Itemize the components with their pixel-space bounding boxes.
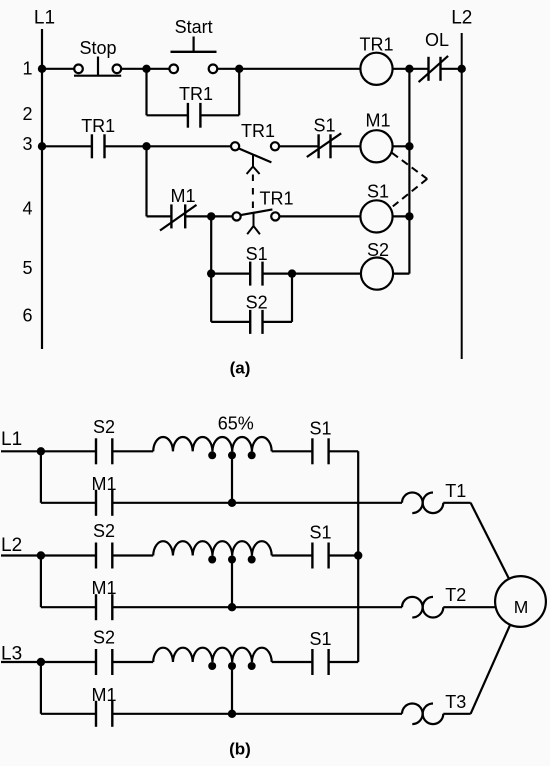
tap dot 80% <box>248 662 256 670</box>
svg-text:S2: S2 <box>246 293 268 313</box>
overload heater T3 <box>402 703 423 724</box>
wire <box>41 713 96 715</box>
svg-text:L2: L2 <box>1 535 22 556</box>
contact S1 (NO) <box>249 262 251 286</box>
svg-text:T1: T1 <box>445 481 466 501</box>
autotransformer winding L2 <box>153 541 272 555</box>
timer dashed link <box>252 175 254 210</box>
wire <box>147 114 188 116</box>
svg-text:TR1: TR1 <box>81 116 115 136</box>
wire <box>1 450 96 452</box>
node rung3-bus junction <box>405 142 413 150</box>
node L1 branch junction <box>37 447 45 455</box>
coil M1 <box>360 130 392 162</box>
contact S2 (L1 start path) <box>95 438 97 464</box>
wire <box>211 321 250 323</box>
wire <box>279 215 360 217</box>
svg-text:(b): (b) <box>229 740 251 759</box>
autotransformer winding L3 <box>153 648 272 662</box>
contact S1 (NC) <box>317 134 319 158</box>
wire tap to motor line <box>231 455 233 503</box>
contact TR1 (NO) <box>91 134 93 158</box>
svg-text:M1: M1 <box>170 186 195 206</box>
node rung1-L1 junction <box>38 65 46 73</box>
motor lead T3 diagonal wire <box>471 602 521 714</box>
overload heater T1 <box>402 492 423 513</box>
svg-text:Start: Start <box>175 17 213 37</box>
node rung4-rung5 branch junction <box>207 212 215 220</box>
motor M <box>495 576 546 627</box>
wire <box>272 661 313 663</box>
wire <box>41 502 96 504</box>
wire <box>112 606 402 608</box>
overload heater T2 <box>402 597 423 618</box>
contact M1 (L1 run path) <box>95 490 97 516</box>
node rung3-L1 junction <box>38 142 46 150</box>
wire <box>185 215 211 217</box>
wire <box>393 68 410 70</box>
contact S1 (L1 star point) <box>311 438 313 464</box>
wire <box>393 273 409 275</box>
node rung1-L2 junction <box>458 65 466 73</box>
tap dot 50% <box>208 451 216 459</box>
svg-text:1: 1 <box>22 59 32 79</box>
wire <box>40 556 42 608</box>
svg-text:S1: S1 <box>367 182 389 202</box>
pushbutton Start (NO) <box>169 65 178 74</box>
wire tap to motor line <box>231 560 233 608</box>
wire <box>1 661 96 663</box>
node rung5-right junction <box>288 269 296 277</box>
svg-text:M1: M1 <box>365 111 390 131</box>
wire <box>40 662 42 714</box>
mechanical interlock dashed <box>392 153 427 179</box>
svg-text:(a): (a) <box>230 359 251 378</box>
wire <box>329 450 359 452</box>
timed contact TR1 (NCTO) rung4 <box>233 212 241 220</box>
wire <box>112 713 402 715</box>
svg-text:2: 2 <box>22 104 32 124</box>
wire <box>217 68 360 70</box>
svg-text:L1: L1 <box>1 429 22 450</box>
wire <box>443 502 470 504</box>
node rung1-branch-right junction <box>235 65 243 73</box>
svg-text:S2: S2 <box>93 417 115 437</box>
svg-text:TR1: TR1 <box>259 189 293 209</box>
svg-text:S2: S2 <box>367 240 389 260</box>
wire tap to motor line <box>231 666 233 714</box>
wire <box>145 146 147 216</box>
power rail L2 <box>461 33 463 359</box>
wire output bus <box>408 69 410 274</box>
svg-text:T3: T3 <box>445 692 466 712</box>
wire <box>41 606 96 608</box>
svg-text:S1: S1 <box>309 523 331 543</box>
power rail L1 <box>41 29 43 349</box>
svg-text:S2: S2 <box>93 628 115 648</box>
node rung1-branch-left junction <box>142 65 150 73</box>
svg-text:4: 4 <box>22 199 32 219</box>
svg-text:M1: M1 <box>91 578 116 598</box>
wire <box>292 273 361 275</box>
wire <box>393 145 410 147</box>
wire <box>42 68 74 70</box>
wire <box>112 502 402 504</box>
contact S2 (L2 start path) <box>95 543 97 569</box>
node L2 branch junction <box>37 551 45 559</box>
node rung3-rung4 branch junction <box>142 142 150 150</box>
tap dot 65% <box>228 662 236 670</box>
svg-text:M: M <box>514 597 529 617</box>
wire <box>272 554 313 556</box>
wire <box>200 114 239 116</box>
node rung5-left junction <box>207 269 215 277</box>
wire <box>112 450 153 452</box>
contact S1 (L3 star point) <box>311 649 313 675</box>
wire <box>331 145 361 147</box>
node tap junction <box>228 499 236 507</box>
wire <box>211 273 250 275</box>
svg-text:S1: S1 <box>309 418 331 438</box>
contact M1 (L3 run path) <box>95 701 97 727</box>
svg-text:S2: S2 <box>93 521 115 541</box>
wire <box>210 216 212 322</box>
svg-text:TR1: TR1 <box>359 35 393 55</box>
contact M1 (L2 run path) <box>95 594 97 620</box>
contact S2 (L3 start path) <box>95 649 97 675</box>
wire star-point bus <box>357 451 359 662</box>
contact M1 (NC) <box>170 204 172 228</box>
wire <box>238 69 240 116</box>
svg-text:3: 3 <box>22 134 32 154</box>
contact S2 (NO) <box>249 310 251 334</box>
svg-text:S1: S1 <box>246 244 268 264</box>
coil TR1 <box>360 53 392 85</box>
wire <box>291 274 293 322</box>
node rung4-bus junction <box>405 212 413 220</box>
tap dot 50% <box>208 556 216 564</box>
contact S1 (L2 star point) <box>311 543 313 569</box>
svg-text:Stop: Stop <box>79 38 116 58</box>
wire <box>393 215 410 217</box>
tap dot 65% <box>228 556 236 564</box>
svg-text:M1: M1 <box>91 685 116 705</box>
wire <box>272 450 313 452</box>
coil S1 <box>360 200 392 232</box>
contact TR1 (NO holding) <box>187 103 189 128</box>
coil S2 <box>361 258 393 290</box>
timed contact TR1 (NOTC) rung3 <box>231 142 239 150</box>
svg-text:65%: 65% <box>218 414 254 434</box>
motor lead T1 diagonal wire <box>471 503 521 602</box>
node L3 branch junction <box>37 658 45 666</box>
wire <box>279 145 319 147</box>
autotransformer winding L1 <box>153 437 272 451</box>
svg-text:TR1: TR1 <box>179 84 213 104</box>
wire <box>105 145 231 147</box>
wire <box>40 451 42 503</box>
wire <box>121 68 169 70</box>
wire <box>42 145 92 147</box>
tap dot 80% <box>248 556 256 564</box>
wire <box>145 69 147 116</box>
wire <box>409 68 428 70</box>
svg-text:OL: OL <box>425 30 449 50</box>
wire <box>443 606 500 608</box>
node star bus junction <box>354 551 362 559</box>
wire <box>263 273 293 275</box>
svg-text:5: 5 <box>22 258 32 278</box>
wire <box>147 215 172 217</box>
tap dot 50% <box>208 662 216 670</box>
svg-text:T2: T2 <box>445 585 466 605</box>
wire <box>329 554 359 556</box>
wire <box>112 661 153 663</box>
svg-text:M1: M1 <box>91 474 116 494</box>
svg-text:S1: S1 <box>309 629 331 649</box>
node tap junction <box>228 603 236 611</box>
wire <box>263 321 293 323</box>
node tap junction <box>228 710 236 718</box>
wire <box>329 661 359 663</box>
wire <box>443 713 470 715</box>
wire <box>112 554 153 556</box>
wire <box>211 215 232 217</box>
svg-text:TR1: TR1 <box>241 121 275 141</box>
overload contact OL (NC) <box>427 57 429 81</box>
wire <box>1 554 96 556</box>
pushbutton Stop (NC) <box>74 65 83 74</box>
node coil-bus junction <box>405 65 413 73</box>
svg-text:L2: L2 <box>451 8 472 29</box>
tap dot 65% <box>228 451 236 459</box>
svg-text:S1: S1 <box>313 116 335 136</box>
svg-text:6: 6 <box>22 306 32 326</box>
svg-text:L1: L1 <box>34 8 55 29</box>
tap dot 80% <box>248 451 256 459</box>
wire <box>441 68 462 70</box>
